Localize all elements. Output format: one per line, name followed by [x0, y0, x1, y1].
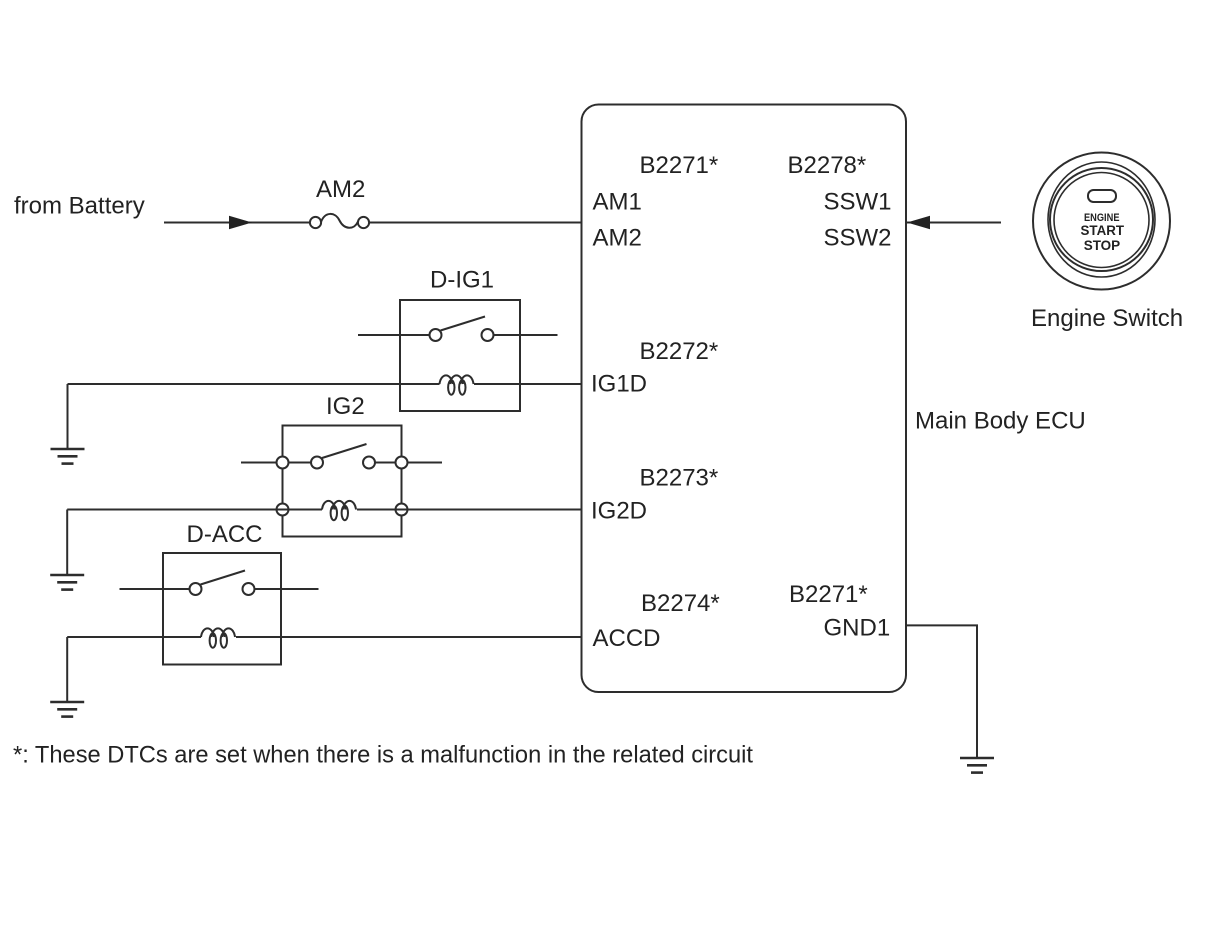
ground 4 (GND1)	[960, 758, 994, 773]
D-ACC box	[163, 553, 281, 665]
svg-text:STOP: STOP	[1084, 238, 1121, 253]
svg-text:SSW2: SSW2	[824, 225, 892, 252]
svg-text:Engine Switch: Engine Switch	[1031, 305, 1183, 332]
arrow on battery wire	[229, 216, 252, 230]
svg-text:D-ACC: D-ACC	[187, 521, 263, 548]
wire ACCD row left	[67, 636, 201, 638]
IG2 switch contacts	[311, 457, 323, 469]
wire down to ground 1	[67, 384, 69, 449]
D-ACC coil	[201, 628, 235, 647]
arrow into ECU (pointing left)	[907, 216, 930, 230]
D-IG1 switch contacts	[430, 329, 442, 341]
svg-text:AM2: AM2	[316, 176, 365, 203]
IG2 terminal circles on box edges (coil row)	[277, 504, 289, 516]
wire from battery (left of fuse)	[164, 222, 310, 224]
IG2 terminal circles on box edges (switch row)	[277, 457, 289, 469]
svg-text:B2271*: B2271*	[789, 581, 868, 608]
D-IG1 switch arm	[441, 317, 486, 331]
svg-text:START: START	[1081, 223, 1125, 238]
IG2 coil	[322, 501, 356, 520]
relay D-ACC	[120, 521, 319, 665]
ground 1	[51, 449, 85, 464]
wire IG1D row	[68, 383, 440, 385]
D-IG1 box	[400, 300, 520, 411]
relay D-IG1	[358, 267, 558, 412]
D-IG1 coil	[440, 375, 474, 394]
svg-text:B2271*: B2271*	[640, 152, 719, 179]
svg-text:IG1D: IG1D	[591, 371, 647, 398]
svg-text:B2272*: B2272*	[640, 338, 719, 365]
D-ACC switch arm	[201, 571, 246, 585]
IG2 switch wire right	[375, 462, 442, 464]
D-IG1 switch wire right	[494, 334, 558, 336]
Main Body ECU box	[582, 105, 907, 693]
wire fuse to ECU	[369, 222, 582, 224]
svg-text:IG2: IG2	[326, 393, 365, 420]
D-ACC switch wire right	[255, 588, 319, 590]
svg-text:from Battery: from Battery	[14, 193, 145, 220]
svg-text:*: These DTCs are set when the: *: These DTCs are set when there is a ma…	[13, 742, 753, 769]
svg-text:B2274*: B2274*	[641, 590, 720, 617]
svg-text:AM2: AM2	[593, 225, 642, 252]
svg-text:Main Body ECU: Main Body ECU	[915, 408, 1086, 435]
svg-text:B2273*: B2273*	[640, 465, 719, 492]
svg-text:SSW1: SSW1	[824, 189, 892, 216]
D-IG1 switch wire left	[358, 334, 430, 336]
svg-text:IG2D: IG2D	[591, 498, 647, 525]
wire engine switch to ECU	[906, 222, 1001, 224]
ground 3	[50, 702, 84, 717]
wire GND1 to ground	[906, 625, 977, 758]
Engine Switch button	[1033, 153, 1170, 290]
fuse AM2	[310, 214, 369, 228]
IG2 switch arm	[322, 444, 367, 458]
relay IG2	[241, 393, 442, 537]
svg-text:B2278*: B2278*	[788, 152, 867, 179]
D-ACC switch contacts	[190, 583, 202, 595]
IG2 switch wire left	[241, 462, 311, 464]
IG2 box	[283, 426, 402, 537]
wire ACCD row right	[236, 636, 582, 638]
svg-text:ACCD: ACCD	[593, 625, 661, 652]
wire IG2D row right	[357, 509, 582, 511]
svg-text:AM1: AM1	[593, 189, 642, 216]
wire down to ground 3	[66, 637, 68, 702]
svg-text:GND1: GND1	[824, 615, 891, 642]
D-ACC switch wire left	[120, 588, 190, 590]
wire IG2D row left	[67, 509, 322, 511]
wire down to ground 2	[66, 510, 68, 576]
ground 2	[50, 575, 84, 590]
indicator pill on button	[1088, 190, 1116, 202]
svg-text:D-IG1: D-IG1	[430, 267, 494, 294]
